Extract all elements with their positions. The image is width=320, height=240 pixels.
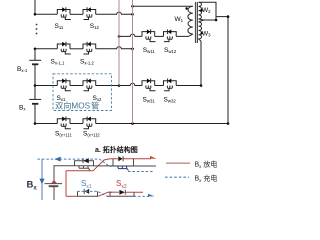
arrow charge left <box>55 157 61 162</box>
wire W3 bottom down to Sw3 row <box>200 41 202 86</box>
battery-string ellipsis <box>36 24 38 35</box>
battery Bx-1 wire <box>34 49 36 61</box>
battery-string bus top segment <box>34 0 36 14</box>
svg-text:W1: W1 <box>175 16 184 23</box>
node Sw row on bus A <box>118 35 121 38</box>
transistor S(x+1)2 <box>83 117 96 129</box>
node: tap x-1 dot <box>34 48 37 51</box>
battery branch diode (red) <box>53 186 55 200</box>
wire row1 left <box>35 13 57 15</box>
svg-text:Sw31: Sw31 <box>143 97 156 104</box>
bus line A <box>118 0 120 86</box>
svg-text:双向MOS管: 双向MOS管 <box>55 101 99 111</box>
wire row3 left <box>35 85 57 87</box>
node: tap x dot <box>34 84 37 87</box>
wire Sw3 row mid <box>155 85 164 87</box>
svg-text:Bx: Bx <box>27 180 38 192</box>
node row1 on bus B <box>131 13 134 16</box>
red vertical and lower horizontal <box>65 171 67 197</box>
red along M4 loop <box>108 191 119 193</box>
arrow charge down <box>39 179 44 185</box>
node return rail bottom <box>227 122 230 125</box>
node return rail top <box>227 15 230 18</box>
wire Sw1 row with hop over bus B <box>119 34 142 36</box>
svg-text:Sx1: Sx1 <box>57 95 66 102</box>
svg-text:Sw32: Sw32 <box>164 97 177 104</box>
battery Bx-1 plates <box>29 59 41 61</box>
transistor Sw11 <box>142 29 156 41</box>
battery Bx plates <box>29 98 41 100</box>
transistor Sx1 <box>57 79 71 91</box>
node bus B top <box>131 5 134 8</box>
blue vertical to battery <box>41 159 43 200</box>
svg-text:S(x+1)2: S(x+1)2 <box>83 131 100 138</box>
node center tap <box>215 19 218 22</box>
node bus B bottom <box>131 122 134 125</box>
winding W3 secondary <box>199 20 204 41</box>
svg-text:Bx 放电: Bx 放电 <box>195 159 218 169</box>
transistor M4 bottom <box>110 192 134 196</box>
svg-text:Bx-1: Bx-1 <box>17 66 28 73</box>
node row3 on bus A <box>118 84 121 87</box>
svg-text:Bx: Bx <box>19 104 26 111</box>
svg-text:Sx-1,2: Sx-1,2 <box>80 58 95 65</box>
legend <box>166 162 190 164</box>
svg-text:S12: S12 <box>90 23 100 30</box>
arrow discharge right <box>150 156 157 161</box>
component labels diagram a <box>17 7 211 138</box>
blue dashed charge rail top with left arrow <box>38 159 155 200</box>
wire row3 right <box>96 85 119 87</box>
diagram b circuit black parts <box>45 156 157 196</box>
svg-text:Sx1: Sx1 <box>81 179 92 190</box>
winding W1 primary <box>188 6 193 34</box>
transistor Sx1 (big) <box>75 161 94 166</box>
polarity dot W3 <box>200 32 202 34</box>
svg-text:W3: W3 <box>202 31 211 38</box>
wire row1 mid <box>70 13 83 15</box>
wire row3 hop over bus B <box>119 83 142 85</box>
left rail with corner <box>54 166 75 184</box>
node W3 to Sw3 row <box>200 84 203 87</box>
core <box>195 2 197 43</box>
svg-text:Sx2: Sx2 <box>116 179 127 190</box>
red discharge path <box>66 159 151 197</box>
wire row2 right with hop over bus A <box>96 47 133 49</box>
wire center tap branch to return rail <box>216 17 228 124</box>
transistor Sw12 <box>164 29 177 41</box>
wire Sw3 right to W3 vertical <box>176 85 201 87</box>
wire W2 top to right rail <box>199 2 216 20</box>
polarity dot W2 <box>200 9 202 11</box>
svg-text:Sx2: Sx2 <box>93 95 102 102</box>
transistor M3 bottom <box>78 191 98 196</box>
svg-text:Sw11: Sw11 <box>143 47 156 54</box>
bottom row channel wire <box>78 195 99 197</box>
bus line B <box>132 0 134 124</box>
battery Bx wire <box>34 86 36 100</box>
dashed selection box <box>53 74 112 111</box>
transistor S(x-1)1 <box>57 42 71 54</box>
node: top tap dot <box>34 13 37 16</box>
battery Bx short plate (diagram b) <box>49 185 59 187</box>
transistor S12 <box>83 7 96 19</box>
transistor S(x-1)2 <box>83 42 96 54</box>
svg-text:a. 拓扑结构图: a. 拓扑结构图 <box>95 145 138 154</box>
svg-text:W2: W2 <box>202 7 211 14</box>
svg-text:Sw12: Sw12 <box>164 47 177 54</box>
transistor Sw31 <box>142 79 156 91</box>
transistor Sx2 (big) loop sides <box>113 159 134 166</box>
blue dashes along M3 loop and exit after M4 <box>78 191 108 196</box>
winding W2 secondary <box>199 2 204 20</box>
wire between <box>94 165 114 167</box>
red bottom row <box>66 195 78 197</box>
wire row2 mid <box>70 48 83 50</box>
wire bus B to transformer primary <box>133 5 193 7</box>
svg-text:Bx 充电: Bx 充电 <box>195 173 218 183</box>
transistor S11 <box>57 7 71 19</box>
svg-text:Sx-1,1: Sx-1,1 <box>51 58 66 65</box>
wire row2 left <box>35 48 57 50</box>
node: bottom corner <box>34 122 37 125</box>
red diode bar wire <box>45 183 63 185</box>
Sx2 channel dark <box>113 165 134 167</box>
wire row4 / bottom bus <box>35 123 57 125</box>
polarity dot W1 <box>185 7 187 9</box>
svg-text:S(x+1)1: S(x+1)1 <box>55 131 72 138</box>
wire row3 mid <box>70 85 83 87</box>
wire row1 right with hop over bus A <box>96 12 133 14</box>
arrow charge right bottom <box>148 194 155 199</box>
svg-text:S11: S11 <box>55 23 64 30</box>
transistor Sw32 <box>164 79 177 91</box>
node row2 on bus B <box>131 48 134 51</box>
transistor S(x+1)1 <box>57 117 71 129</box>
transistor Sx2 <box>83 79 96 91</box>
